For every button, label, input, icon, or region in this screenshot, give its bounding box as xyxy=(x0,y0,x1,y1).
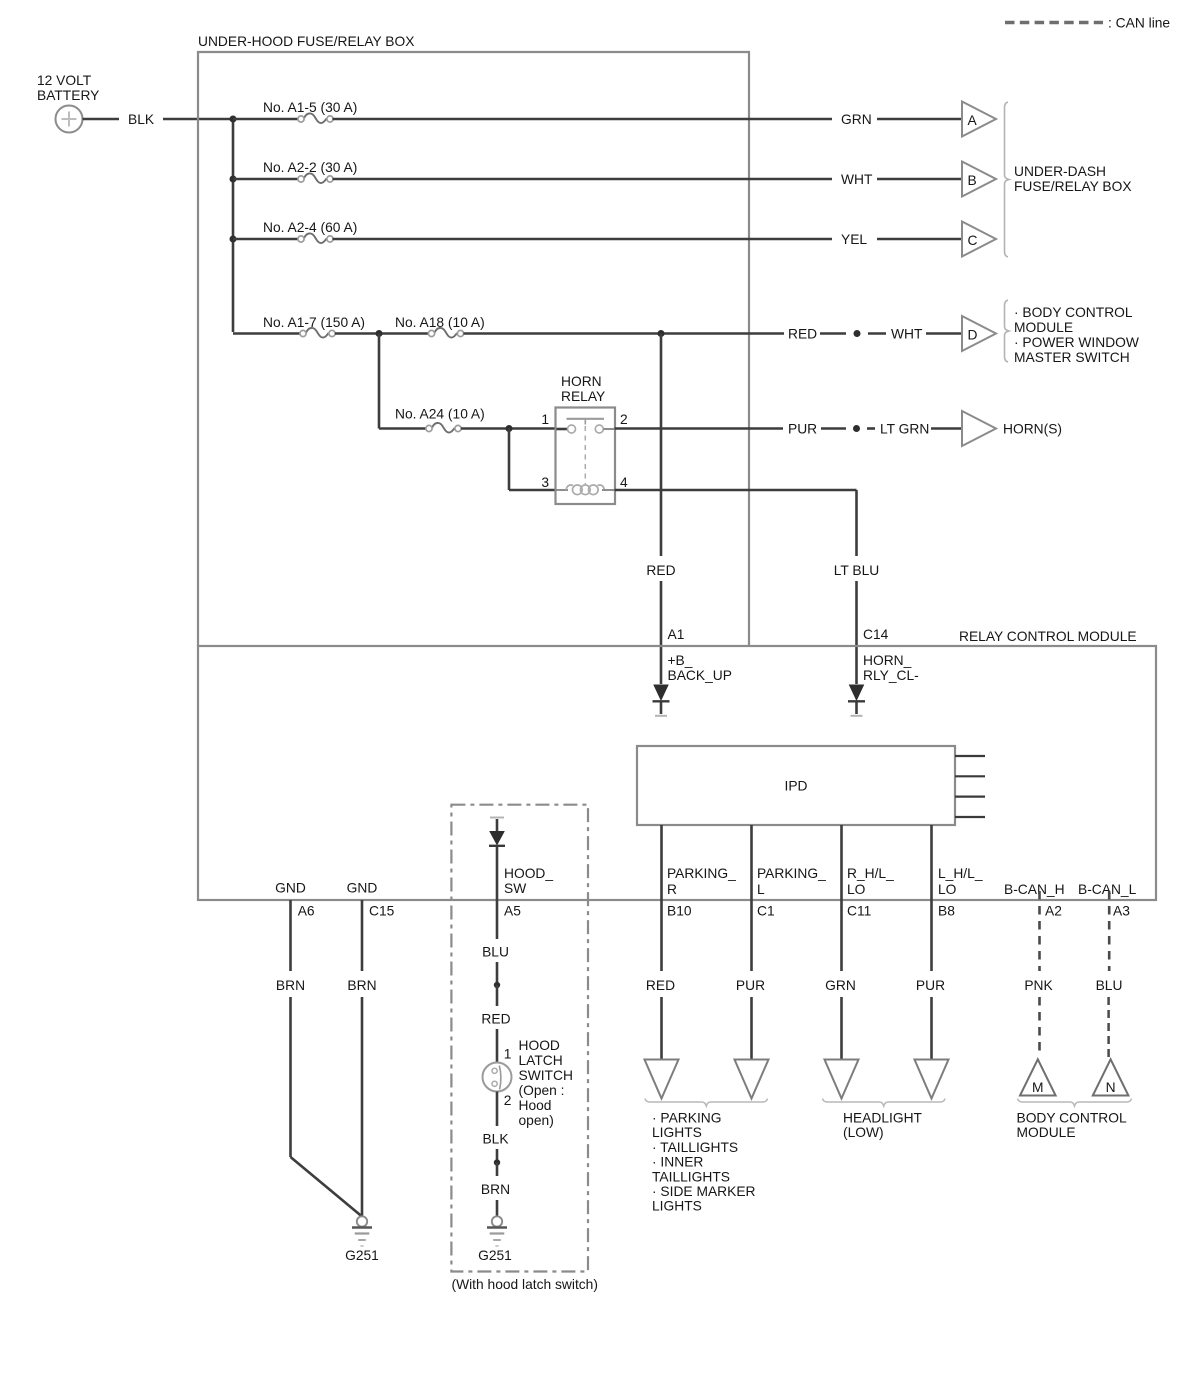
svg-text:LIGHTS: LIGHTS xyxy=(652,1125,702,1140)
pin 2 (switch) xyxy=(504,1093,512,1108)
node A1-7/A18 junction xyxy=(335,330,429,337)
svg-text:C11: C11 xyxy=(847,904,871,919)
wire LT BLU to module C14 xyxy=(855,581,858,684)
svg-text:LO: LO xyxy=(938,882,957,897)
svg-text:LT GRN: LT GRN xyxy=(880,422,929,437)
pin B8 xyxy=(938,904,955,919)
horn relay K1 xyxy=(556,374,616,504)
label BODY CONTROL MODULE xyxy=(1017,1111,1127,1141)
svg-text:LO: LO xyxy=(847,882,866,897)
under-dash fuse/relay box bracket xyxy=(1005,102,1010,257)
pin A1 xyxy=(668,627,685,642)
svg-text:PUR: PUR xyxy=(788,422,817,437)
svg-text:BRN: BRN xyxy=(276,978,305,993)
svg-text:No. A24 (10 A): No. A24 (10 A) xyxy=(395,407,485,422)
label parking lights group xyxy=(652,1111,756,1214)
net +B_BACK_UP xyxy=(668,653,732,683)
pin C14 xyxy=(863,627,889,642)
svg-text:BLU: BLU xyxy=(1096,978,1123,993)
node bus-row1 xyxy=(230,116,237,123)
svg-text:HORN(S): HORN(S) xyxy=(1003,422,1062,437)
svg-text:MASTER SWITCH: MASTER SWITCH xyxy=(1014,350,1130,365)
svg-text:HORN_: HORN_ xyxy=(863,653,912,668)
svg-text:· INNER: · INNER xyxy=(652,1155,703,1170)
net GND (C15) xyxy=(347,881,378,896)
svg-text:3: 3 xyxy=(541,475,549,490)
svg-text:BODY CONTROL: BODY CONTROL xyxy=(1017,1111,1127,1126)
svg-text:UNDER-DASH: UNDER-DASH xyxy=(1014,164,1106,179)
pin C1 xyxy=(757,904,775,919)
svg-text:WHT: WHT xyxy=(891,327,923,342)
arrow to parking lights (B10) xyxy=(645,1060,679,1099)
svg-text:RELAY CONTROL MODULE: RELAY CONTROL MODULE xyxy=(959,629,1137,644)
wire A6 (BRN) to G251 xyxy=(276,900,362,1217)
net GND (A6) xyxy=(275,881,306,896)
connector B xyxy=(962,162,996,197)
wire battery to bus (BLK) xyxy=(83,112,234,127)
svg-text:M: M xyxy=(1032,1080,1044,1095)
node BLK/BRN splice xyxy=(494,1159,500,1165)
svg-text:A6: A6 xyxy=(298,904,315,919)
svg-text:L_H/L_: L_H/L_ xyxy=(938,866,983,881)
net L_H/L_LO xyxy=(938,866,983,897)
svg-text:· SIDE MARKER: · SIDE MARKER xyxy=(652,1184,756,1199)
ground G251 (left) xyxy=(345,1216,379,1263)
horn relay coil xyxy=(557,485,615,495)
wire RED to switch xyxy=(481,985,510,1063)
svg-text:G251: G251 xyxy=(478,1248,512,1263)
pin A3 xyxy=(1113,904,1130,919)
connector M xyxy=(1020,1059,1056,1095)
node BLU/RED splice xyxy=(494,982,500,988)
svg-text:C1: C1 xyxy=(757,904,775,919)
svg-text:A: A xyxy=(968,113,978,128)
pin 1 xyxy=(541,412,549,427)
svg-text:C15: C15 xyxy=(369,904,395,919)
svg-text:C: C xyxy=(968,233,978,248)
svg-text:BLU: BLU xyxy=(482,945,509,960)
fuse No. A1-7 xyxy=(233,315,365,338)
svg-text:1: 1 xyxy=(541,412,549,427)
svg-text:RLY_CL-: RLY_CL- xyxy=(863,668,919,683)
diode at A1 xyxy=(653,685,670,716)
svg-text:BLK: BLK xyxy=(482,1132,509,1147)
svg-text:A2: A2 xyxy=(1045,904,1062,919)
relay control module box xyxy=(198,629,1156,900)
svg-text:IPD: IPD xyxy=(785,779,808,794)
connector D xyxy=(962,316,996,351)
brace headlight xyxy=(823,1099,946,1107)
horn relay plunger (dashed) xyxy=(584,426,586,484)
wire C15 (BRN) to G251 xyxy=(347,900,376,1216)
svg-text:G251: G251 xyxy=(345,1248,379,1263)
net HORN_RLY_CL- xyxy=(863,653,919,683)
wire RED output at x=661.5 xyxy=(646,900,675,1059)
svg-text:SWITCH: SWITCH xyxy=(519,1068,573,1083)
battery 12 VOLT xyxy=(37,73,99,133)
svg-text:B: B xyxy=(968,173,977,188)
svg-text:GRN: GRN xyxy=(841,112,872,127)
svg-text:FUSE/RELAY BOX: FUSE/RELAY BOX xyxy=(1014,179,1132,194)
svg-text:2: 2 xyxy=(504,1093,512,1108)
wire BLK xyxy=(482,1092,509,1163)
net B-CAN_L xyxy=(1078,882,1137,897)
svg-text:Hood: Hood xyxy=(519,1098,552,1113)
wire YEL to connector C xyxy=(841,232,962,247)
svg-text:+B_: +B_ xyxy=(668,653,693,668)
caption (With hood latch switch) xyxy=(452,1277,598,1292)
wire pin2 PUR / LT GRN to horn xyxy=(603,422,962,437)
svg-text:LATCH: LATCH xyxy=(519,1053,563,1068)
svg-text:SW: SW xyxy=(504,881,526,896)
wire A18 junction down to A1 (RED) xyxy=(660,334,663,557)
wire IPD pin C1 xyxy=(750,825,753,900)
connector C xyxy=(962,222,996,257)
wire battery bus vertical xyxy=(232,119,235,332)
svg-text:PUR: PUR xyxy=(736,978,765,993)
label BODY CONTROL MODULE / POWER WINDOW MASTER SWITCH xyxy=(1014,305,1139,365)
svg-text:GRN: GRN xyxy=(825,978,856,993)
svg-text:1: 1 xyxy=(504,1047,512,1062)
svg-text:B-CAN_H: B-CAN_H xyxy=(1004,882,1065,897)
wire GRN to connector A xyxy=(841,112,962,127)
svg-text:RELAY: RELAY xyxy=(561,389,605,404)
svg-text:LIGHTS: LIGHTS xyxy=(652,1199,702,1214)
svg-text:· BODY CONTROL: · BODY CONTROL xyxy=(1014,305,1133,320)
wire RED to module A1 xyxy=(660,581,663,684)
svg-text:· POWER WINDOW: · POWER WINDOW xyxy=(1014,335,1139,350)
node horn relay pin1 junction xyxy=(461,425,556,432)
svg-text:MODULE: MODULE xyxy=(1014,320,1073,335)
svg-text:RED: RED xyxy=(646,563,675,578)
pin 1 (switch) xyxy=(504,1047,512,1062)
svg-text:L: L xyxy=(757,882,765,897)
ground G251 (hood switch) xyxy=(478,1216,512,1263)
pin C11 xyxy=(847,904,871,919)
wire junction down to pin 3 xyxy=(509,429,556,491)
svg-text:12 VOLT: 12 VOLT xyxy=(37,73,92,88)
svg-text:· PARKING: · PARKING xyxy=(652,1111,722,1126)
label HEADLIGHT (LOW) xyxy=(843,1111,923,1141)
wire B-CAN_L (BLU, CAN) xyxy=(1096,891,1123,1057)
svg-text:BATTERY: BATTERY xyxy=(37,88,99,103)
wire B-CAN_H (PNK, CAN) xyxy=(1024,891,1053,1057)
fuse No. A2-2 xyxy=(233,160,832,183)
wire BRN to G251 xyxy=(481,1163,510,1217)
svg-text:: CAN line: : CAN line xyxy=(1108,16,1170,31)
svg-text:GND: GND xyxy=(275,881,306,896)
connector N xyxy=(1093,1059,1129,1095)
wire pin4 to C14 (LT BLU) xyxy=(615,490,857,556)
svg-text:HORN: HORN xyxy=(561,374,602,389)
pin A6 xyxy=(298,904,315,919)
label UNDER-DASH FUSE/RELAY BOX xyxy=(1014,164,1132,194)
svg-text:WHT: WHT xyxy=(841,172,873,187)
svg-text:open): open) xyxy=(519,1113,554,1128)
brace body control module xyxy=(1018,1099,1132,1107)
svg-text:YEL: YEL xyxy=(841,232,867,247)
wire IPD pin C11 xyxy=(840,825,843,900)
hood latch switch option box xyxy=(451,805,588,1272)
wire A18 to RED xyxy=(464,330,785,337)
svg-text:MODULE: MODULE xyxy=(1017,1125,1076,1140)
label LT BLU xyxy=(834,563,880,578)
svg-text:RED: RED xyxy=(481,1012,510,1027)
svg-text:RED: RED xyxy=(788,327,817,342)
svg-text:R_H/L_: R_H/L_ xyxy=(847,866,894,881)
node bus-row2 xyxy=(230,176,237,183)
svg-text:(Open :: (Open : xyxy=(519,1083,565,1098)
pin 3 xyxy=(541,475,549,490)
wire GRN output at x=841.5 xyxy=(825,900,856,1059)
svg-text:· TAILLIGHTS: · TAILLIGHTS xyxy=(652,1140,738,1155)
pin A2 xyxy=(1045,904,1062,919)
net HOOD_SW xyxy=(504,866,553,896)
svg-text:RED: RED xyxy=(646,978,675,993)
svg-text:R: R xyxy=(667,882,677,897)
svg-text:TAILLIGHTS: TAILLIGHTS xyxy=(652,1169,730,1184)
net R_H/L_LO xyxy=(847,866,894,897)
svg-text:HOOD_: HOOD_ xyxy=(504,866,553,881)
svg-text:(LOW): (LOW) xyxy=(843,1125,884,1140)
pin B10 xyxy=(667,904,692,919)
under-hood fuse/relay box xyxy=(198,34,749,646)
pin 4 xyxy=(620,475,628,490)
svg-text:B10: B10 xyxy=(667,904,692,919)
net B-CAN_H xyxy=(1004,882,1065,897)
wire RED / splice / WHT to connector D xyxy=(788,327,962,342)
wire IPD pin B8 xyxy=(930,825,933,900)
wire PUR output at x=931.5 xyxy=(916,900,945,1059)
svg-text:4: 4 xyxy=(620,475,628,490)
svg-text:A3: A3 xyxy=(1113,904,1130,919)
svg-text:PUR: PUR xyxy=(916,978,945,993)
wire A5 to BLU xyxy=(482,846,509,985)
svg-text:PNK: PNK xyxy=(1024,978,1053,993)
svg-text:PARKING_: PARKING_ xyxy=(667,866,736,881)
svg-text:LT BLU: LT BLU xyxy=(834,563,880,578)
svg-text:(With hood latch switch): (With hood latch switch) xyxy=(452,1277,598,1292)
connector to HORN(S) xyxy=(962,411,1062,446)
svg-text:BRN: BRN xyxy=(481,1182,510,1197)
svg-text:A5: A5 xyxy=(504,904,521,919)
svg-text:D: D xyxy=(968,328,978,343)
svg-text:BRN: BRN xyxy=(347,978,376,993)
brace parking lights xyxy=(645,1099,768,1107)
diode at C14 xyxy=(848,685,865,716)
connector D bracket xyxy=(1005,300,1010,362)
horn relay contact xyxy=(557,419,605,433)
pin A5 xyxy=(504,904,521,919)
svg-text:BLK: BLK xyxy=(128,112,155,127)
svg-text:GND: GND xyxy=(347,881,378,896)
wire WHT to connector B xyxy=(841,172,962,187)
label HOOD LATCH SWITCH xyxy=(519,1038,573,1128)
wire PUR output at x=751.5 xyxy=(736,900,765,1059)
arrow to headlight (C11) xyxy=(825,1060,859,1099)
svg-text:N: N xyxy=(1106,1080,1116,1095)
svg-text:UNDER-HOOD FUSE/RELAY BOX: UNDER-HOOD FUSE/RELAY BOX xyxy=(198,34,414,49)
svg-text:BACK_UP: BACK_UP xyxy=(668,668,732,683)
svg-text:PARKING_: PARKING_ xyxy=(757,866,826,881)
fuse No. A18 xyxy=(395,315,485,338)
connector A xyxy=(962,102,996,137)
IPD connector stubs xyxy=(955,756,985,817)
fuse No. A24 xyxy=(379,407,485,433)
pin 2 xyxy=(620,412,628,427)
svg-text:A1: A1 xyxy=(668,627,685,642)
svg-text:B-CAN_L: B-CAN_L xyxy=(1078,882,1137,897)
entry arrow at hood switch xyxy=(489,818,505,846)
arrow to headlight (B8) xyxy=(915,1060,949,1099)
IPD unit xyxy=(637,746,955,825)
svg-text:B8: B8 xyxy=(938,904,955,919)
svg-text:HEADLIGHT: HEADLIGHT xyxy=(843,1111,923,1126)
label RED xyxy=(646,563,675,578)
fuse No. A2-4 xyxy=(233,220,832,243)
net PARKING_R xyxy=(667,866,736,897)
net PARKING_L xyxy=(757,866,826,897)
hood latch switch S1 xyxy=(483,1063,512,1092)
svg-text:C14: C14 xyxy=(863,627,889,642)
pin C15 xyxy=(369,904,395,919)
wire IPD pin B10 xyxy=(660,825,663,900)
fuse No. A1-5 xyxy=(233,100,832,123)
CAN line legend xyxy=(1005,16,1170,31)
svg-text:HOOD: HOOD xyxy=(519,1038,560,1053)
wire A1-7 junction down to A24 xyxy=(378,334,381,429)
svg-text:2: 2 xyxy=(620,412,628,427)
node bus-row3 xyxy=(230,236,237,243)
arrow to parking lights (C1) xyxy=(735,1060,769,1099)
